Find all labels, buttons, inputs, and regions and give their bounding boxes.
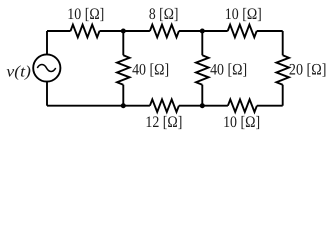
svg-text:8 [Ω]: 8 [Ω] [149, 6, 179, 23]
svg-text:10 [Ω]: 10 [Ω] [223, 114, 260, 131]
svg-text:12 [Ω]: 12 [Ω] [145, 114, 182, 131]
svg-text:10 [Ω]: 10 [Ω] [67, 6, 104, 23]
svg-text:40 [Ω]: 40 [Ω] [210, 61, 247, 78]
svg-text:v(t): v(t) [6, 64, 31, 81]
svg-text:40 [Ω]: 40 [Ω] [132, 61, 169, 78]
svg-text:20 [Ω]: 20 [Ω] [289, 61, 327, 78]
svg-text:10 [Ω]: 10 [Ω] [225, 6, 262, 23]
